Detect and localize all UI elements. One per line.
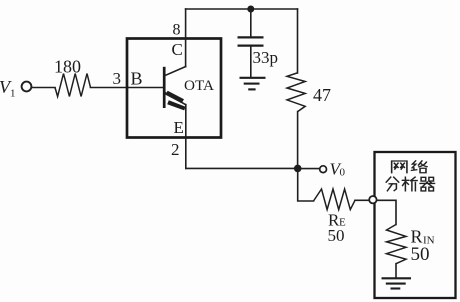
网 <box>392 161 407 173</box>
wire analyzer port to RIN <box>377 200 396 224</box>
transistor Q1 <box>164 67 185 111</box>
pin E <box>174 118 184 137</box>
ground (below C 33p) <box>240 78 266 90</box>
svg-text:47: 47 <box>313 85 331 105</box>
wire top rail down to R 47 <box>297 9 299 73</box>
pin 3 <box>113 69 122 88</box>
wire pin 2 (emitter) <box>185 105 187 169</box>
label RE 50 <box>328 226 345 245</box>
resistor RIN <box>387 225 407 264</box>
pin C <box>172 40 183 59</box>
svg-text:50: 50 <box>411 244 430 265</box>
capacitor C1 33p <box>238 37 264 45</box>
pin 8 <box>173 22 181 39</box>
terminal analyzer port <box>369 196 376 203</box>
wire V1 to R 180 <box>32 87 55 89</box>
wire R 180 to base (pin 3) <box>91 87 165 89</box>
器 <box>420 177 434 191</box>
svg-text:C: C <box>172 40 183 59</box>
svg-text:2: 2 <box>171 140 180 159</box>
label RIN 50 <box>411 244 430 265</box>
wire node down to RE <box>298 169 314 201</box>
wire collector pin 8 to top rail <box>185 9 187 67</box>
junction output node <box>294 165 302 173</box>
svg-text:1: 1 <box>10 88 16 100</box>
wire emitter to output node <box>186 167 298 169</box>
pin B <box>131 69 143 89</box>
wire RIN to ground <box>395 264 397 278</box>
svg-text:50: 50 <box>328 226 345 245</box>
wire R 47 to output node <box>297 112 299 169</box>
络 <box>412 161 427 173</box>
分 <box>386 177 399 191</box>
junction top rail / C 33p <box>247 6 254 13</box>
label OTA <box>184 77 214 94</box>
label 33p <box>253 48 279 67</box>
wire C 33p to ground <box>250 46 252 77</box>
label RIN <box>411 227 435 247</box>
wire top rail <box>186 8 298 10</box>
svg-text:OTA: OTA <box>184 77 214 94</box>
terminal V0 <box>320 166 327 173</box>
svg-text:B: B <box>131 69 143 89</box>
pin 2 <box>171 140 180 159</box>
svg-text:180: 180 <box>54 57 81 77</box>
resistor RE <box>314 189 356 210</box>
label V0 <box>330 160 346 179</box>
label 网络 <box>392 161 427 173</box>
ground (analyzer) <box>382 278 412 288</box>
label RE <box>328 211 346 230</box>
svg-text:E: E <box>174 118 184 137</box>
wire node to V0 terminal <box>298 168 319 170</box>
label 分析器 <box>386 177 434 191</box>
svg-text:8: 8 <box>173 22 181 39</box>
wire RE to analyzer port <box>355 199 368 201</box>
input terminal V1 <box>22 82 32 92</box>
label 180 <box>54 57 81 77</box>
label 47 <box>313 85 331 105</box>
svg-text:33p: 33p <box>253 48 279 67</box>
network analyzer box <box>375 152 456 298</box>
resistor 47 <box>287 73 305 112</box>
svg-text:3: 3 <box>113 69 122 88</box>
OTA package outline <box>127 39 221 138</box>
label V1 <box>0 77 16 100</box>
svg-text:0: 0 <box>340 167 346 179</box>
析 <box>402 177 417 191</box>
resistor 180 <box>55 74 91 97</box>
wire junction to C 33p <box>250 9 252 37</box>
